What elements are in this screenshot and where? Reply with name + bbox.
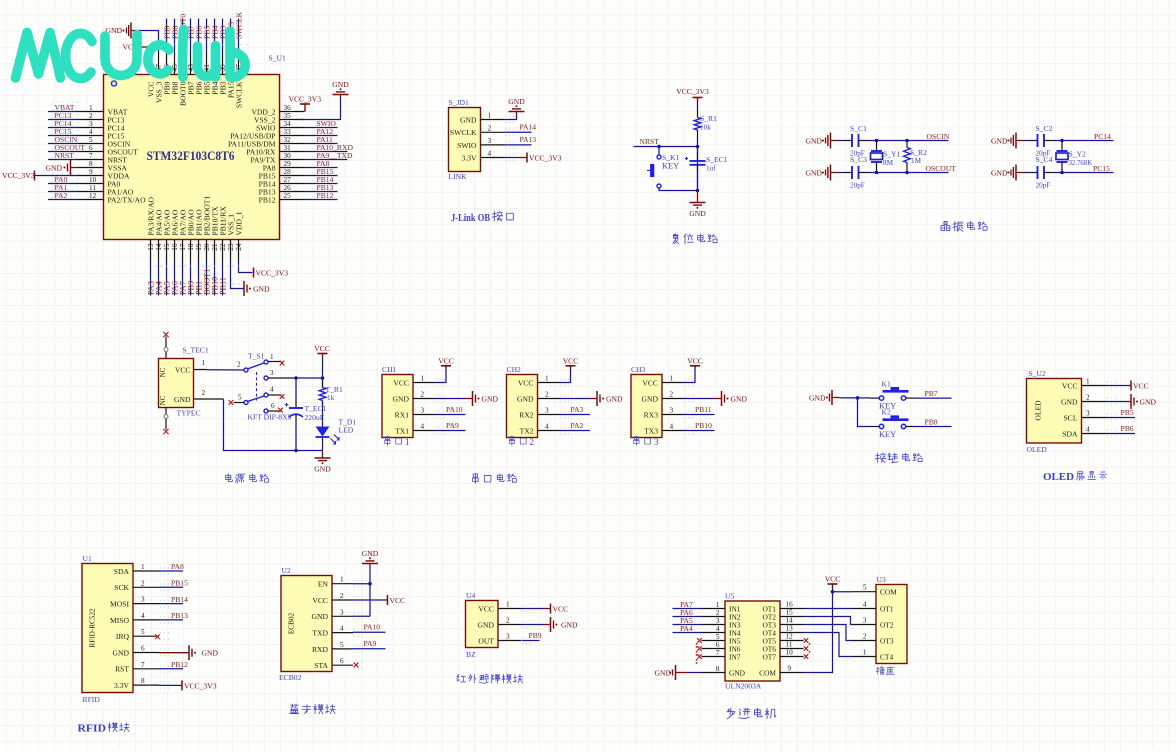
power VCC_3V3 bottom right of U1: [253, 268, 255, 278]
svg-text:PB10: PB10: [695, 421, 712, 430]
svg-text:GND: GND: [561, 620, 578, 629]
wire GND to keys: [840, 397, 870, 399]
svg-text:VCC_3V3: VCC_3V3: [289, 95, 322, 104]
svg-text:VCC: VCC: [390, 596, 406, 605]
svg-text:VCC: VCC: [478, 604, 494, 613]
svg-text:GND: GND: [332, 80, 349, 89]
dotted compile marks above U1: [164, 29, 245, 31]
U5 pin 6 (IN6): [702, 648, 726, 650]
wire net PA10 bluetooth: [353, 631, 386, 633]
svg-text:10: 10: [786, 649, 794, 657]
wire net PB6 top: [198, 19, 200, 52]
svg-text:5: 5: [340, 641, 344, 649]
svg-text:J-Link OB: J-Link OB: [451, 212, 491, 224]
wire GND to capacitor S_C4: [1024, 172, 1030, 174]
svg-text:1: 1: [405, 437, 410, 447]
wire U2 GND vertical: [353, 615, 370, 617]
svg-text:PA2: PA2: [571, 421, 584, 430]
svg-text:OLED: OLED: [1034, 400, 1043, 421]
svg-text:MOSI: MOSI: [110, 600, 129, 609]
title serial port circuit: [473, 473, 517, 483]
U5 pin 3 (IN3): [702, 624, 726, 626]
crystal S_Y2: [1061, 141, 1063, 151]
node junctions crystal: [1060, 139, 1064, 143]
svg-text:TX3: TX3: [644, 426, 658, 435]
svg-text:PB8: PB8: [925, 418, 938, 427]
S_U2 pin 3 (SCL): [1082, 417, 1107, 419]
svg-text:VCC: VCC: [553, 604, 569, 613]
svg-text:1: 1: [89, 104, 93, 112]
S_JD1 pin 3 (SWIO): [481, 144, 505, 146]
capacitor S_C4 20pF: [1037, 166, 1039, 179]
svg-text:1: 1: [270, 353, 274, 361]
svg-text:2: 2: [421, 391, 425, 399]
svg-text:TX2: TX2: [520, 426, 534, 435]
wire S_C1 row to net: [859, 140, 868, 142]
svg-text:RST: RST: [115, 665, 129, 674]
wire VCC rail down: [322, 358, 324, 388]
svg-text:ULN2003A: ULN2003A: [725, 682, 762, 691]
svg-text:18: 18: [187, 243, 195, 251]
wire net PA11 right: [305, 143, 338, 145]
svg-text:RX2: RX2: [519, 410, 534, 419]
U5 pin 15 (OT2): [780, 616, 804, 618]
connector U2 ECB02 body: [281, 576, 332, 672]
svg-text:VCC_3V3: VCC_3V3: [529, 153, 562, 162]
svg-text:8M: 8M: [883, 159, 894, 167]
switch S_K1 KEY pushbutton: [657, 155, 661, 159]
wire K1 to net PB7: [906, 397, 914, 399]
U3 pin 1 (CT4): [853, 656, 877, 658]
CH2 pin 4 (TX2): [538, 430, 560, 432]
U5 pin 9 (COM): [780, 672, 804, 674]
wire GND to capacitor S_C3: [839, 172, 845, 174]
wire OT2 to U3: [804, 617, 853, 625]
wire net PB10 bottom: [214, 262, 216, 296]
svg-text:2: 2: [716, 609, 720, 617]
resistor T_R1 1k: [322, 382, 324, 388]
svg-text:PB14: PB14: [171, 595, 188, 604]
svg-text:31: 31: [284, 144, 292, 152]
U1 pin 3 (PC14) left: [79, 127, 104, 129]
wire S_C4 row to net: [1044, 172, 1053, 174]
svg-text:PA10: PA10: [446, 405, 463, 414]
wire VCC to pin48: [150, 47, 152, 52]
svg-text:S_U2: S_U2: [1029, 369, 1047, 378]
ground GND at U1 pin8 VSSA: [71, 167, 79, 169]
wire R1 to LED: [322, 401, 324, 427]
svg-text:U4: U4: [466, 591, 475, 600]
svg-text:2: 2: [1086, 394, 1090, 402]
resistor S_R1 10k: [694, 118, 701, 131]
CH2 pin 2 (GND): [538, 398, 560, 400]
LED T_D1: [316, 427, 330, 437]
U1 pin 43 (PB7) top: [190, 52, 192, 75]
svg-text:CH2: CH2: [507, 365, 522, 374]
wire net PB6: [1107, 433, 1136, 435]
wire COM to VCC rail: [804, 588, 833, 673]
wire U1 GND: [159, 652, 189, 654]
wire CH2 VCC up: [560, 369, 571, 383]
svg-text:PA4: PA4: [680, 624, 693, 633]
node junctions crystal: [875, 139, 879, 143]
wire net PC15: [48, 135, 79, 137]
U1 pin 48 (VCC) top: [150, 52, 152, 75]
svg-text:STA: STA: [314, 661, 328, 670]
U1 pin 42 (PB6) top: [198, 52, 200, 75]
U5 pin 4 (IN4): [702, 632, 726, 634]
T_S1 throw 1 stub: [268, 361, 282, 363]
svg-text:RXD: RXD: [312, 645, 329, 654]
svg-text:GND: GND: [113, 648, 130, 657]
svg-text:COM: COM: [759, 668, 776, 677]
U1 pin 29 (PA8) right: [280, 167, 305, 169]
svg-text:29: 29: [284, 160, 292, 168]
S_U2 pin 1 (VCC): [1082, 385, 1107, 387]
svg-text:VCC: VCC: [393, 378, 409, 387]
U5 pin 7 (IN7): [702, 656, 726, 658]
svg-text:220uF: 220uF: [305, 413, 324, 422]
wire net PA8: [159, 570, 183, 572]
U1 pin 14 (PA4/AO) bottom: [158, 240, 160, 262]
wire net PA2: [560, 430, 591, 432]
svg-text:COM: COM: [880, 588, 897, 597]
U1 pin 36 (VDD_2) right: [280, 111, 305, 113]
U1 pin 4 (PC15) left: [79, 135, 104, 137]
svg-text:4: 4: [141, 612, 145, 620]
svg-text:LINK: LINK: [449, 172, 468, 181]
wire net PB5 top: [206, 19, 208, 52]
wire net PA6 stepper: [673, 616, 702, 618]
svg-text:3: 3: [89, 120, 93, 128]
connector S_TEC1 TYPEC body: [159, 359, 194, 408]
S_TEC1 NC pin top: [165, 337, 167, 359]
svg-text:PB12: PB12: [317, 191, 334, 200]
svg-text:3: 3: [716, 617, 720, 625]
U1 pin 37 (SWCLK) top: [238, 52, 240, 75]
CH3 pin 4 (TX3): [662, 430, 684, 432]
svg-text:20pF: 20pF: [1036, 182, 1051, 190]
wire net PA14: [505, 131, 532, 133]
U5 pin 1 (IN1): [702, 608, 726, 610]
wire S_JD1 pin1 to GND: [505, 113, 517, 120]
svg-text:PB5: PB5: [1121, 408, 1134, 417]
capacitor S_C1 20pF: [851, 134, 853, 147]
CH3 pin 1 (VCC): [662, 382, 684, 384]
connector U4 body: [466, 601, 499, 648]
wire net PB9 top: [166, 19, 168, 52]
U1 pin 1 (VBAT) left: [79, 111, 104, 113]
svg-text:PA2/TX/AO: PA2/TX/AO: [108, 195, 147, 204]
logo MCUclub: [16, 30, 246, 79]
wire TEC1 GND to bottom rail: [224, 399, 297, 451]
svg-text:S_JD1: S_JD1: [449, 98, 469, 107]
U1 pin 47 (VSS_3) top: [158, 52, 160, 75]
wire net BOOT0 top: [182, 19, 184, 52]
wire net PA9: [435, 430, 466, 432]
wire net PB3 top: [222, 19, 224, 52]
svg-text:OSCIN: OSCIN: [927, 132, 950, 141]
wire NRST down to key S_K1: [658, 147, 660, 155]
svg-text:GND: GND: [806, 168, 823, 177]
ground GND at U1 VSS_2: [299, 98, 341, 120]
svg-text:2: 2: [237, 361, 241, 369]
svg-text:32.768K: 32.768K: [1069, 160, 1093, 167]
U1 pin 3 (MOSI): [133, 603, 159, 605]
svg-text:KEY: KEY: [879, 430, 896, 439]
wire VSS_1 to GND bottom: [231, 262, 244, 289]
wire net PA9 bluetooth: [353, 648, 386, 650]
svg-text:PA10: PA10: [364, 623, 381, 632]
svg-text:GND: GND: [1061, 397, 1078, 406]
svg-text:VCC: VCC: [518, 378, 534, 387]
svg-text:23: 23: [227, 243, 235, 251]
U1 pin 18 (PB0/AO) bottom: [190, 240, 192, 262]
svg-text:9: 9: [89, 168, 93, 176]
wire net PB13: [159, 619, 183, 621]
label serial port 2: [509, 436, 526, 446]
svg-text:VCC: VCC: [687, 356, 703, 365]
svg-text:GND: GND: [655, 669, 672, 678]
svg-text:3: 3: [488, 137, 492, 145]
svg-text:2: 2: [141, 579, 145, 587]
CH1 pin 3 (RX1): [413, 414, 435, 416]
no connect X at OT5 OT6 OT7: [804, 638, 809, 643]
U1 pin 9 (VDDA) left: [79, 175, 104, 177]
svg-text:3: 3: [340, 608, 344, 616]
wire net PA13: [505, 144, 532, 146]
svg-text:GND: GND: [362, 549, 379, 558]
svg-text:S_Y2: S_Y2: [1069, 150, 1087, 159]
wire net PA8 right: [305, 167, 338, 169]
U1 pin 11 (PA1/AO) left: [79, 191, 104, 193]
wire OT1 to U3: [804, 608, 853, 610]
svg-text:VCC: VCC: [825, 575, 841, 584]
wire net OSCOUT: [48, 151, 79, 153]
svg-text:5: 5: [89, 136, 93, 144]
svg-text:5: 5: [238, 394, 242, 402]
wire CH3 VCC up: [684, 369, 695, 383]
U1 pin 4 (MISO): [133, 619, 159, 621]
svg-text:19: 19: [195, 243, 203, 251]
wire VDD_1 to VCC_3V3 bottom: [239, 262, 253, 273]
U1 pin 10 (PA0) left: [79, 183, 104, 185]
node junction VCC/switch: [321, 376, 325, 380]
svg-text:1: 1: [863, 649, 867, 657]
U1 pin 41 (PB5) top: [206, 52, 208, 75]
U2 pin 6 (STA): [332, 664, 353, 666]
svg-text:4: 4: [863, 601, 867, 609]
wire net PB5: [1107, 417, 1136, 419]
U1 pin 21 (PB10/TX) bottom: [214, 240, 216, 262]
svg-text:6: 6: [271, 402, 275, 410]
U5 pin 2 (IN2): [702, 616, 726, 618]
ground GND right of U4: [550, 617, 552, 632]
svg-text:1: 1: [1086, 378, 1090, 386]
ground GND bottom right of U1: [243, 281, 245, 296]
svg-text:S_TEC1: S_TEC1: [183, 346, 209, 355]
svg-text:SDA: SDA: [1062, 429, 1078, 438]
svg-text:PA3: PA3: [571, 405, 584, 414]
wire net PB9: [522, 640, 540, 642]
svg-text:1: 1: [506, 601, 510, 609]
ground GND bottom of reset circuit: [697, 191, 699, 203]
wire net PA10: [435, 414, 466, 416]
U4 pin 2 (GND): [498, 624, 521, 626]
wire TEC1 VCC to switch: [207, 369, 245, 371]
resistor S_R2 1M: [906, 141, 908, 148]
U1 pin 31 (PA10/RX) right: [280, 151, 305, 153]
svg-text:GND: GND: [606, 394, 623, 403]
svg-text:VDD_1: VDD_1: [234, 211, 243, 235]
wire net PA4 stepper: [673, 632, 702, 634]
svg-text:VCC: VCC: [312, 596, 328, 605]
svg-text:ECB02: ECB02: [288, 613, 296, 635]
U5 pin 16 (OT1): [780, 608, 804, 610]
svg-text:VCC: VCC: [175, 365, 191, 374]
U5 pin 13 (OT4): [780, 632, 804, 634]
wire S_C2 row to net: [1044, 140, 1053, 142]
wire S_JD1 pin4 to VCC_3V3: [505, 157, 519, 159]
svg-text:S_R1: S_R1: [700, 114, 717, 123]
U1 pin 20 (PB2/BOOT1) bottom: [206, 240, 208, 262]
svg-text:U3: U3: [877, 575, 886, 584]
U1 pin 2 (PC13) left: [79, 119, 104, 121]
svg-text:5: 5: [141, 628, 145, 636]
svg-text:VCC: VCC: [642, 378, 658, 387]
ground GND above S_JD1: [516, 112, 518, 114]
svg-text:NC: NC: [159, 395, 167, 405]
svg-text:PA13: PA13: [520, 135, 537, 144]
U5 pin 12 (OT5): [780, 640, 804, 642]
svg-text:10: 10: [89, 176, 97, 184]
svg-text:PA14: PA14: [520, 123, 537, 132]
svg-text:GND: GND: [731, 394, 748, 403]
svg-text:2: 2: [202, 389, 206, 397]
ground GND right of CH1: [472, 391, 474, 406]
title bluetooth module: [290, 704, 335, 714]
U1 pin 13 (PA3/RX/AO) bottom: [150, 240, 152, 262]
svg-text:U1: U1: [83, 554, 92, 563]
svg-text:2: 2: [529, 437, 534, 447]
svg-text:4: 4: [545, 423, 549, 431]
U3 pin 4 (OT1): [853, 608, 877, 610]
svg-text:21: 21: [211, 243, 219, 251]
svg-text:VCC: VCC: [438, 356, 454, 365]
connector CH3 body: [631, 375, 662, 438]
svg-text:4: 4: [716, 625, 720, 633]
no connect X at IRQ: [155, 634, 160, 639]
svg-text:OUT: OUT: [478, 636, 494, 645]
svg-text:4: 4: [340, 625, 344, 633]
wire net SWIO right: [305, 127, 338, 129]
U1 pin 35 (VSS_2) right: [280, 119, 305, 121]
U1 pin 34 (SWIO) right: [280, 127, 305, 129]
svg-text:1: 1: [340, 576, 344, 584]
wire net PB12 right: [305, 199, 338, 201]
svg-text:7: 7: [141, 661, 145, 669]
svg-text:PB11: PB11: [695, 405, 712, 414]
wire OT3 to U3: [804, 625, 853, 641]
wire net VBAT: [48, 111, 79, 113]
wire net PB12: [159, 668, 183, 670]
wire S_U2 GND: [1107, 401, 1125, 403]
svg-text:6: 6: [141, 645, 145, 653]
T_S1 throw 6 stub: [268, 410, 282, 412]
U4 pin 1 (VCC): [498, 608, 521, 610]
svg-text:GND: GND: [729, 668, 746, 677]
wire CH1 GND right: [435, 398, 465, 400]
wire net PB1 bottom: [198, 262, 200, 296]
svg-text:17: 17: [179, 243, 187, 251]
U1 pin 26 (PB13) right: [280, 191, 305, 193]
U1 pin 38 (PA15) top: [230, 52, 232, 75]
U2 pin 1 (EN): [332, 583, 353, 585]
svg-text:MISO: MISO: [110, 616, 130, 625]
U5 pin 8 (GND): [702, 672, 726, 674]
svg-text:OLED: OLED: [1027, 445, 1048, 454]
svg-text:11: 11: [786, 641, 793, 649]
svg-text:36: 36: [284, 104, 292, 112]
svg-text:VCC: VCC: [563, 356, 579, 365]
svg-text:3: 3: [654, 437, 659, 447]
svg-text:16: 16: [786, 601, 794, 609]
svg-text:OT7: OT7: [762, 652, 776, 661]
svg-text:8: 8: [716, 665, 720, 673]
svg-text:2: 2: [340, 592, 344, 600]
svg-text:4: 4: [421, 423, 425, 431]
svg-text:RFID-RC522: RFID-RC522: [89, 608, 97, 648]
svg-text:30: 30: [284, 152, 292, 160]
wire U4 GND: [521, 624, 543, 626]
wire net PA2: [48, 199, 79, 201]
svg-text:TX1: TX1: [395, 426, 409, 435]
svg-text:SWCLK: SWCLK: [235, 11, 244, 39]
wire net PA12 right: [305, 135, 338, 137]
wire R1 to NRST node: [697, 130, 699, 139]
svg-text:GND: GND: [806, 136, 823, 145]
U1 pin 27 (PB14) right: [280, 183, 305, 185]
svg-text:PC14: PC14: [1094, 132, 1111, 141]
svg-text:GND: GND: [478, 620, 495, 629]
connector CH1 body: [382, 375, 413, 438]
svg-text:T_S1: T_S1: [248, 352, 265, 361]
svg-text:34: 34: [284, 120, 292, 128]
CH1 pin 1 (VCC): [413, 382, 435, 384]
svg-text:RX1: RX1: [395, 410, 410, 419]
svg-text:PB12: PB12: [171, 660, 188, 669]
U2 pin 5 (RXD): [332, 648, 353, 650]
wire net PB15 right: [305, 175, 338, 177]
connector CH2 body: [507, 375, 538, 438]
U2 pin 2 (VCC): [332, 599, 353, 601]
wire GND to VSS_3 top: [141, 31, 159, 52]
svg-text:T_R1: T_R1: [326, 385, 344, 394]
wire net PC14: [48, 127, 79, 129]
svg-text:1: 1: [716, 601, 720, 609]
svg-text:9: 9: [788, 665, 792, 673]
svg-text:12: 12: [786, 633, 794, 641]
U1 pin 33 (PA12/USB/DP) right: [280, 135, 305, 137]
svg-text:35: 35: [284, 112, 292, 120]
CH3 pin 3 (RX3): [662, 414, 684, 416]
svg-text:OSCOUT: OSCOUT: [926, 164, 957, 173]
wire net PC13: [48, 119, 79, 121]
svg-text:VCC_3V3: VCC_3V3: [256, 268, 289, 277]
wire net PB8 top: [174, 19, 176, 52]
title IR obstacle module: [457, 674, 523, 683]
svg-text:PA8: PA8: [171, 562, 184, 571]
